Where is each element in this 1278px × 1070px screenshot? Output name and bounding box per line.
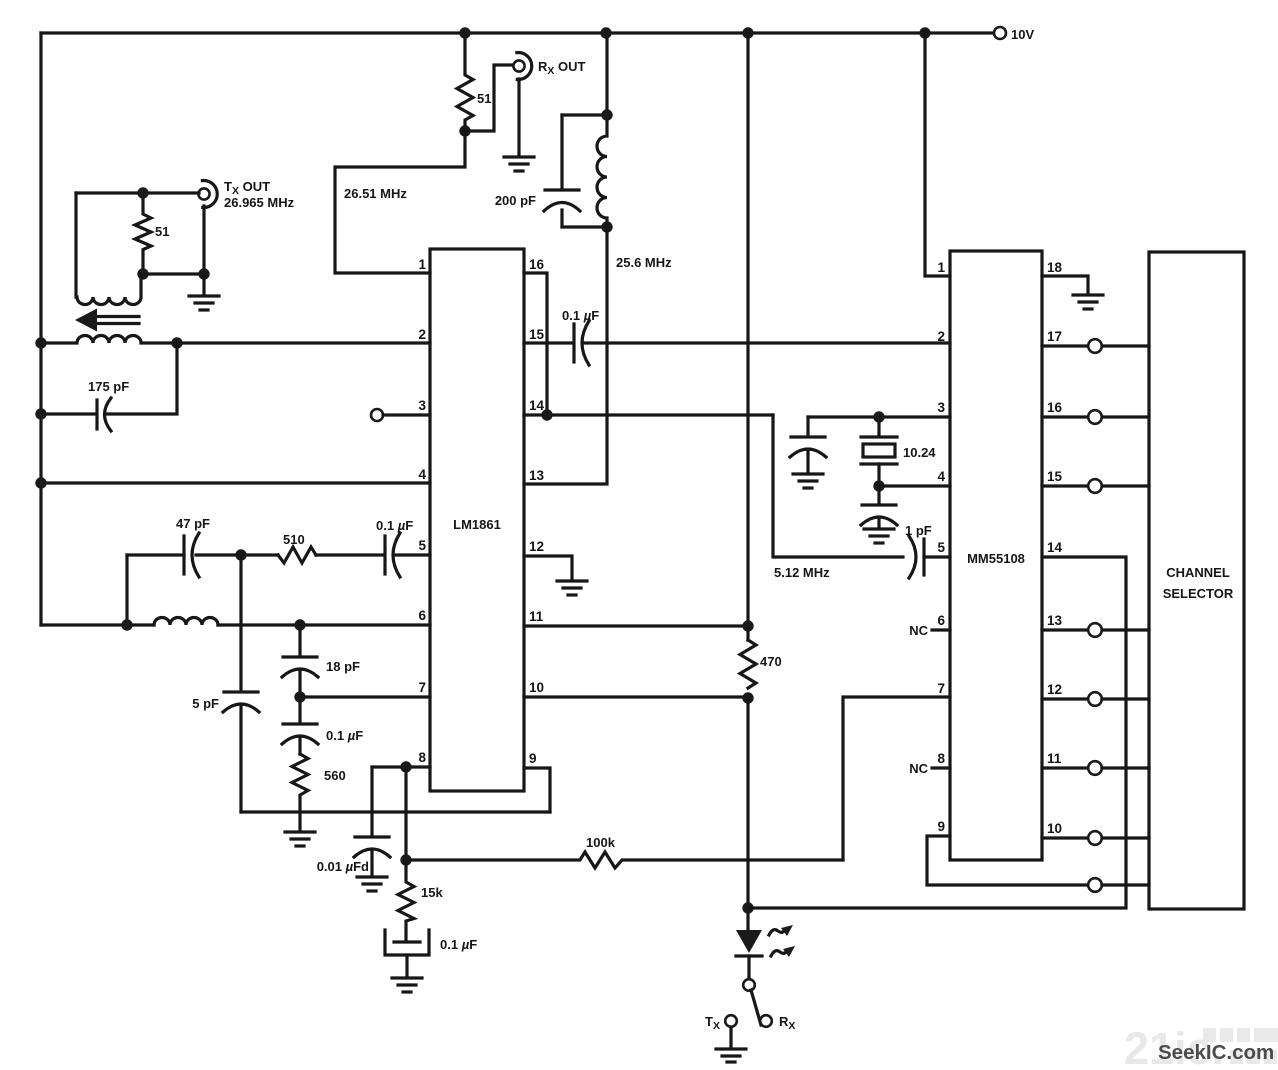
wire pin 6 from left rail corner: [41, 623, 154, 626]
wire LED supply column: [746, 33, 749, 640]
wire pin 12 contact: [1042, 697, 1088, 700]
node crystal bottom junction: [873, 480, 884, 491]
coupling arrow: [93, 317, 139, 324]
node pin7 junction: [294, 691, 305, 702]
wire to ground: [202, 274, 205, 295]
resistor 51 (upper, to Rx jack): [457, 33, 473, 131]
node jack ground leg junction: [198, 268, 209, 279]
node pin14/pin16 junction: [541, 409, 552, 420]
node 100k/15k junction: [400, 854, 411, 865]
wire pin 4 from left rail: [41, 481, 430, 484]
node tank bottom junction: [601, 221, 612, 232]
ground below Tx contact: [716, 1049, 746, 1062]
ground below 0.1uF: [392, 978, 422, 992]
svg-text:0.1 µF: 0.1 µF: [562, 308, 599, 323]
node left rail pin4 junction: [35, 477, 46, 488]
wire MM55108 pin 3: [808, 415, 950, 418]
svg-text:NC: NC: [909, 761, 928, 776]
svg-text:11: 11: [529, 609, 544, 624]
terminal pin 13 select contact: [1088, 623, 1102, 637]
capacitor 5 pF: [239, 555, 242, 691]
wire pin 15 contact: [1042, 484, 1088, 487]
capacitor 0.1uF (below pin 7): [298, 697, 301, 723]
svg-text:12: 12: [1047, 682, 1062, 697]
capacitor 47 pF: [127, 553, 241, 556]
svg-text:560: 560: [324, 768, 346, 783]
wire pin 11 to 470 top: [524, 624, 748, 627]
svg-text:4: 4: [418, 467, 426, 482]
svg-text:51: 51: [155, 224, 169, 239]
svg-text:17: 17: [1047, 329, 1062, 344]
svg-text:6: 6: [937, 613, 945, 628]
wire pin 8: [372, 765, 430, 768]
svg-text:0.01 µFd: 0.01 µFd: [317, 859, 369, 874]
capacitor 0.1uF (pin 15): [572, 324, 575, 362]
node Tx jack top junction: [137, 187, 148, 198]
wire 100k to MM55108 pin 7: [843, 697, 950, 860]
switch Rx contact: [760, 1015, 772, 1027]
svg-text:7: 7: [418, 680, 426, 695]
svg-text:26.965 MHz: 26.965 MHz: [224, 195, 295, 210]
svg-text:18: 18: [1047, 260, 1063, 275]
svg-text:LM1861: LM1861: [453, 517, 501, 532]
wire 51 bottom to jack ground leg: [143, 272, 204, 275]
wire from 51 resistor to Rx jack: [465, 65, 512, 131]
wire pin 15 stub: [524, 341, 573, 344]
svg-text:18 pF: 18 pF: [326, 659, 360, 674]
wire 5pF bottom to pin 9 drop: [241, 810, 550, 813]
capacitor (pin 3 to ground): [806, 417, 809, 436]
svg-text:1 pF: 1 pF: [905, 523, 932, 538]
svg-text:3: 3: [937, 400, 945, 415]
node pin6 left junction: [121, 619, 132, 630]
terminal pin 15 select contact: [1088, 479, 1102, 493]
LED light arrows: [769, 930, 785, 935]
node secondary tap junction: [171, 337, 182, 348]
capacitor 0.01 uFd: [370, 767, 373, 836]
node LED top junction: [742, 902, 753, 913]
terminal pin 10 select contact: [1088, 831, 1102, 845]
node junction top rail at LED column: [742, 27, 753, 38]
wire Rx jack shield to ground: [517, 79, 520, 156]
wire tank to LM1861 pin 13: [524, 227, 607, 484]
wire pin 9 stub and drop: [524, 768, 550, 812]
svg-text:16: 16: [1047, 400, 1063, 415]
node left rail pin2 junction: [35, 337, 46, 348]
connector Tx OUT jack: [198, 188, 209, 199]
svg-text:0.1 µF: 0.1 µF: [326, 728, 363, 743]
wire NC pin 6 stub: [932, 628, 950, 631]
ground below pin4 cap: [864, 529, 894, 543]
svg-text:SELECTOR: SELECTOR: [1163, 586, 1234, 601]
wire 470 to LED: [746, 698, 749, 930]
wire Tx contact to ground: [729, 1027, 732, 1048]
wire 5.12 MHz net pin14 to 1pF: [773, 415, 903, 557]
wire MM55108 pin 1 from top rail: [925, 33, 950, 276]
wire Tx jack down to ground node: [202, 206, 205, 274]
inductor 25.6 MHz tank coil: [597, 33, 607, 227]
node 470 bottom junction: [742, 692, 753, 703]
svg-text:12: 12: [529, 539, 544, 554]
wire tank bottom: [562, 225, 607, 228]
svg-text:13: 13: [1047, 613, 1063, 628]
svg-text:10.24: 10.24: [903, 445, 936, 460]
wire 1pF to MM55108 pin 5: [924, 555, 950, 558]
node pin6 18pF junction: [294, 619, 305, 630]
svg-text:47 pF: 47 pF: [176, 516, 210, 531]
svg-text:100k: 100k: [586, 835, 616, 850]
wire pin 8 down to 100k node: [404, 767, 407, 860]
node crystal top junction: [873, 411, 884, 422]
capacitor 0.1uF (pin 5): [383, 536, 386, 574]
wire pin 11 contact: [1042, 766, 1088, 769]
wire pin 18 to ground: [1042, 276, 1088, 294]
svg-text:15: 15: [1047, 469, 1063, 484]
node pin5 net junction: [235, 549, 246, 560]
terminal pin 12 select contact: [1088, 692, 1102, 706]
capacitor (pin 4 to ground): [877, 486, 880, 504]
ground below 560: [285, 832, 315, 846]
svg-text:15: 15: [529, 327, 545, 342]
terminal pin 17 select contact: [1088, 339, 1102, 353]
capacitor 18 pF: [298, 625, 301, 656]
wire pin 3 stub: [383, 413, 430, 416]
node tank top junction: [601, 109, 612, 120]
svg-text:CHANNEL: CHANNEL: [1166, 565, 1230, 580]
svg-text:14: 14: [529, 398, 545, 413]
wire 175pF branch: [41, 343, 177, 414]
wire 47pF left leg down to pin 6 net: [125, 555, 128, 625]
node pin8 junction: [400, 761, 411, 772]
svg-text:6: 6: [418, 608, 426, 623]
wire pin 14 to 5.12MHz column: [524, 413, 773, 416]
resistor 15k: [398, 860, 414, 941]
capacitor 0.1uF (feedthrough style): [394, 940, 420, 943]
svg-text:3: 3: [418, 398, 426, 413]
terminal pin 16 select contact: [1088, 410, 1102, 424]
node left rail 175pF junction: [35, 408, 46, 419]
wire Tx jack hot lead: [76, 191, 199, 194]
resistor 100k: [406, 852, 843, 868]
svg-text:14: 14: [1047, 540, 1063, 555]
resistor 510: [278, 547, 316, 563]
switch S1 pole: [743, 979, 755, 991]
ground below Tx jack: [189, 296, 219, 310]
wire inductor to pin 6: [218, 623, 430, 626]
ground below 0.01uFd: [357, 877, 387, 891]
connector Rx OUT jack: [513, 60, 524, 71]
transformer T1 primary winding: [76, 193, 141, 305]
IC U2 MM55108: [950, 251, 1042, 860]
wire pin 16 contact: [1042, 415, 1088, 418]
inductor pin 6: [154, 618, 218, 626]
capacitor 175 pF: [95, 400, 98, 429]
ground below Rx jack: [504, 157, 534, 171]
svg-text:26.51 MHz: 26.51 MHz: [344, 186, 407, 201]
svg-text:5 pF: 5 pF: [192, 696, 219, 711]
wire pin 17 contact: [1042, 344, 1088, 347]
svg-text:5: 5: [937, 540, 945, 555]
svg-text:9: 9: [529, 751, 537, 766]
svg-text:1: 1: [937, 260, 945, 275]
node junction top rail at 26.51MHz resistor: [459, 27, 470, 38]
wire pin 9 to channel selector: [927, 836, 1088, 885]
switch lever: [751, 990, 761, 1025]
ground below pin 12: [557, 581, 587, 595]
crystal 10.24: [877, 417, 880, 436]
svg-text:9: 9: [937, 819, 945, 834]
svg-text:1: 1: [418, 257, 426, 272]
svg-text:10V: 10V: [1011, 27, 1034, 42]
svg-text:NC: NC: [909, 623, 928, 638]
ground below pin3 cap: [793, 474, 823, 488]
switch Tx contact: [725, 1015, 737, 1027]
svg-text:10: 10: [1047, 821, 1062, 836]
block channel selector: [1149, 252, 1244, 909]
wire left vertical rail: [39, 33, 42, 625]
wire tank top: [562, 113, 607, 116]
wire pin 10 to 470 bottom: [524, 695, 748, 698]
capacitor 1 pF: [909, 536, 916, 578]
ground pin 18: [1073, 295, 1103, 309]
wire NC pin 8 stub: [932, 766, 950, 769]
wire primary right leg to 51 junction: [141, 272, 143, 275]
svg-text:8: 8: [937, 751, 945, 766]
terminal pin 11 select contact: [1088, 761, 1102, 775]
svg-text:8: 8: [418, 750, 426, 765]
wire MM55108 pin 4: [879, 484, 950, 487]
wire pin 10 contact: [1042, 836, 1088, 839]
terminal pin 9 select contact: [1088, 878, 1102, 892]
svg-text:0.1 µF: 0.1 µF: [440, 937, 477, 952]
svg-text:MM55108: MM55108: [967, 551, 1025, 566]
svg-text:0.1 µF: 0.1 µF: [376, 518, 413, 533]
LED D1: [736, 930, 762, 953]
svg-text:51: 51: [477, 91, 491, 106]
svg-text:10: 10: [529, 680, 544, 695]
wire pin 7: [300, 695, 430, 698]
node junction at 51 resistor bottom: [459, 125, 470, 136]
svg-text:5: 5: [418, 538, 426, 553]
resistor 560: [292, 754, 308, 831]
svg-text:11: 11: [1047, 751, 1062, 766]
svg-text:2: 2: [418, 327, 426, 342]
wire pin 13 contact: [1042, 628, 1088, 631]
wire pin 5 chain: cap, resistor to node: [241, 553, 430, 556]
transformer T1 secondary winding on pin2 wire: [41, 336, 430, 343]
svg-text:510: 510: [283, 532, 305, 547]
svg-text:15k: 15k: [421, 885, 443, 900]
node 470 top junction: [742, 620, 753, 631]
svg-text:5.12 MHz: 5.12 MHz: [774, 565, 830, 580]
capacitor 200 pF (tank): [560, 115, 563, 189]
wire pin15 cap to MM55108 pin 2: [583, 341, 950, 344]
IC U1 LM1861: [430, 249, 524, 791]
svg-text:175 pF: 175 pF: [88, 379, 129, 394]
node junction top rail at MM55108 pin1 column: [919, 27, 930, 38]
node junction top rail at tank: [600, 27, 611, 38]
svg-text:16: 16: [529, 257, 545, 272]
terminal 10V: [994, 27, 1006, 39]
terminal pin 3 input: [371, 409, 383, 421]
svg-text:4: 4: [937, 469, 945, 484]
watermark chinese blocks: [1203, 1028, 1278, 1064]
wire pin 12 stub to ground: [524, 556, 572, 580]
svg-text:SeekIC.com: SeekIC.com: [1158, 1041, 1274, 1064]
wire pin 16 stub down to pin 14 net: [524, 273, 547, 415]
svg-text:7: 7: [937, 681, 945, 696]
svg-text:200 pF: 200 pF: [495, 193, 536, 208]
resistor 51 (transformer primary load): [135, 193, 151, 274]
resistor 470: [740, 640, 756, 688]
node 51 bottom junction: [137, 268, 148, 279]
wire top 10V supply rail: [41, 31, 998, 34]
wire pin 14 to LED node: [748, 557, 1126, 908]
svg-text:13: 13: [529, 468, 545, 483]
svg-text:470: 470: [760, 654, 782, 669]
svg-text:2: 2: [937, 329, 945, 344]
svg-text:25.6 MHz: 25.6 MHz: [616, 255, 672, 270]
wire 26.51 MHz net: 51 resistor to LM1861 pin 1: [335, 131, 465, 273]
